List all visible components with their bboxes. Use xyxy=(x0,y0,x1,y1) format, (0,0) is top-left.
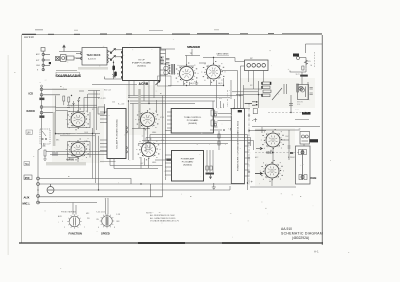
tube V1 xyxy=(66,109,90,131)
tube V7 xyxy=(261,129,285,151)
svg-text:ACRB: ACRB xyxy=(139,82,149,86)
power amp label xyxy=(181,158,195,167)
input jack J1 xyxy=(40,88,67,96)
svg-text:6: 6 xyxy=(98,227,99,229)
svg-text:R—C 47K: R—C 47K xyxy=(98,98,106,100)
capacitor C2 xyxy=(166,63,170,64)
svg-text:6BA6: 6BA6 xyxy=(152,131,156,134)
notes text block xyxy=(146,213,180,223)
connector pin labels xyxy=(36,53,41,71)
wire subcircuit to pilot box xyxy=(301,72,303,85)
wire bus y91.8 xyxy=(232,91,258,93)
wires around output tubes xyxy=(168,58,235,86)
dark label right cluster xyxy=(302,112,311,115)
svg-text:1-7/8: 1-7/8 xyxy=(116,214,120,216)
pilot lamp box xyxy=(298,85,309,100)
rectifier cluster stacked resistors xyxy=(236,81,271,108)
svg-text:(N-8401): (N-8401) xyxy=(137,66,146,68)
wire V6 top drop xyxy=(186,56,188,66)
wire under mic board xyxy=(100,161,116,163)
dark dash left of fuse box xyxy=(290,152,293,154)
tiny labels under IF board xyxy=(98,90,124,106)
svg-text:4: 4 xyxy=(62,221,63,223)
paper tone patches xyxy=(52,78,315,186)
svg-text:C15: C15 xyxy=(112,101,115,103)
svg-text:6BE6: 6BE6 xyxy=(152,162,156,164)
wires into S1 xyxy=(73,203,76,215)
input jack J2 xyxy=(40,106,56,114)
svg-text:VOLTAGE MEASURED AT 117V: VOLTAGE MEASURED AT 117V xyxy=(150,219,180,222)
svg-text:LIN: LIN xyxy=(27,131,31,134)
mic board right pin bumps xyxy=(126,127,127,154)
svg-text:2: 2 xyxy=(64,227,65,229)
tube V5 output xyxy=(201,61,225,83)
gray blob left mid xyxy=(52,152,58,156)
svg-text:75: 75 xyxy=(299,129,301,131)
scan smear vertical band 2 xyxy=(138,89,140,128)
svg-text:AUX: AUX xyxy=(24,196,30,200)
scan speck top-left xyxy=(14,72,16,73)
svg-text:SPEED: SPEED xyxy=(101,232,110,236)
ground G1 xyxy=(195,81,198,85)
svg-text:ICD: ICD xyxy=(29,92,34,96)
tone control label xyxy=(184,117,202,125)
vertical wire x216 xyxy=(216,80,218,108)
6AR5 label xyxy=(217,53,230,56)
svg-text:6AQ5: 6AQ5 xyxy=(218,82,222,85)
output transformer T2 xyxy=(172,64,174,75)
wire top of speaker area xyxy=(140,47,175,49)
svg-text:R3: R3 xyxy=(92,109,94,111)
svg-text:2.2M: 2.2M xyxy=(84,141,88,143)
IF amp board label xyxy=(132,60,152,68)
svg-text:6AV6: 6AV6 xyxy=(67,158,75,162)
wires IF board bottom drop xyxy=(129,81,154,104)
svg-text:KEB: KEB xyxy=(311,176,317,180)
wire y130.7 xyxy=(249,130,266,132)
frame bottom border xyxy=(19,242,323,244)
mic board input connector xyxy=(98,104,105,114)
jack circles lower xyxy=(37,195,40,204)
svg-text:SCHEMATIC DIAGRAM: SCHEMATIC DIAGRAM xyxy=(281,231,323,235)
svg-text:MIC⊥: MIC⊥ xyxy=(23,202,31,206)
ladder under tone board right xyxy=(218,131,220,150)
svg-text:(4802292A): (4802292A) xyxy=(292,236,309,240)
tube V6 output xyxy=(174,63,198,85)
svg-text:A-1: A-1 xyxy=(314,250,319,254)
svg-text:MIC AMP PC BOARD (N-8400): MIC AMP PC BOARD (N-8400) xyxy=(116,119,119,148)
svg-text:RADIO: RADIO xyxy=(27,109,35,113)
junction mark xyxy=(49,62,51,64)
capacitor C1 xyxy=(166,58,170,59)
ground G2 xyxy=(212,183,216,190)
svg-text:ALL RESISTANCE IN OHM: ALL RESISTANCE IN OHM xyxy=(150,214,175,217)
jack group label 2 xyxy=(39,115,44,118)
svg-text:.047: .047 xyxy=(140,163,143,165)
dashed line between tubes xyxy=(255,152,300,154)
verticals right mid xyxy=(210,101,224,130)
plug P2 xyxy=(110,55,116,61)
S2 inner wiper xyxy=(106,216,108,226)
dark cap label xyxy=(206,173,215,175)
svg-text:— —: — — xyxy=(295,109,299,111)
tone board pins xyxy=(167,112,218,128)
junction dots scattered xyxy=(37,57,291,191)
resistor R6 xyxy=(211,120,215,126)
svg-text:IF AMP PC BOARD: IF AMP PC BOARD xyxy=(132,62,152,65)
scan smear band 1 xyxy=(78,67,108,70)
svg-text:TONE CONTROL: TONE CONTROL xyxy=(184,117,202,119)
vertical with cap xyxy=(289,95,293,113)
wire mic board to speed switch xyxy=(106,159,163,215)
svg-text:FUNCTION: FUNCTION xyxy=(69,232,83,236)
wires around V7 V8 xyxy=(272,140,289,186)
bus vertical 2 xyxy=(55,96,57,136)
scan noise speckle xyxy=(29,39,314,238)
S1 surrounding labels xyxy=(58,211,90,230)
filter box FL1 xyxy=(56,57,60,61)
svg-text:NOTE:: NOTE: xyxy=(146,213,153,215)
long bus wires lower left xyxy=(38,179,245,203)
wires V2 to mic board xyxy=(46,152,107,155)
svg-text:A-4010S: A-4010S xyxy=(88,58,96,61)
staircase risers lower left xyxy=(163,180,231,197)
grid wires above V1 xyxy=(73,91,101,134)
rectifier end caps dark xyxy=(261,82,271,97)
junction dot xyxy=(113,62,114,63)
AC inlet box xyxy=(300,132,310,145)
left main bus vertical xyxy=(38,87,42,203)
verticals into power supply top xyxy=(231,66,244,109)
svg-text:R— 220: R— 220 xyxy=(118,103,124,105)
svg-text:ALL CAPACITANCE IN MFD: ALL CAPACITANCE IN MFD xyxy=(150,217,176,220)
power entry box xyxy=(296,146,311,184)
svg-text:7-1/2 3-3/4: 7-1/2 3-3/4 xyxy=(96,212,105,214)
components right of power amp xyxy=(206,150,213,172)
tube V4 xyxy=(136,139,160,161)
scattered scan specks xyxy=(60,86,349,269)
frame top border xyxy=(22,30,322,35)
LIN label xyxy=(26,130,33,134)
tube lineup legend xyxy=(56,70,77,72)
label 250 dark xyxy=(24,175,32,180)
svg-text:TK OF: TK OF xyxy=(138,60,145,62)
svg-text:TEAC DECK: TEAC DECK xyxy=(87,54,101,57)
wires speaker block drop xyxy=(249,71,264,90)
caps right of pilot box xyxy=(310,88,313,95)
rotary switch S2 xyxy=(100,214,114,228)
svg-text:PC BOARD: PC BOARD xyxy=(182,161,194,164)
top right subcircuit xyxy=(306,44,323,53)
caps cluster right xyxy=(284,82,308,100)
svg-text:POWER SUPPLY & POWER AMP PC BO: POWER SUPPLY & POWER AMP PC BOARD (N-840… xyxy=(237,121,240,171)
wire right column xyxy=(295,118,309,120)
wire speaker drop xyxy=(185,49,200,56)
svg-text:SPEAKER: SPEAKER xyxy=(187,45,201,49)
wire mid xyxy=(230,108,250,110)
jack circles right of IF board xyxy=(164,66,168,70)
wires tubes to speaker block xyxy=(222,58,245,71)
scan smear vertical band 1 xyxy=(53,112,56,146)
svg-text:B 250V: B 250V xyxy=(288,157,295,159)
filter box FL2 xyxy=(67,56,82,60)
connector CN1 xyxy=(41,48,50,71)
plug marks top of chain xyxy=(245,101,258,105)
small dark component V4 right xyxy=(167,159,172,161)
AC inlet dark label xyxy=(310,139,319,142)
power amp left pins xyxy=(163,76,172,180)
svg-text:250: 250 xyxy=(25,176,30,180)
scan edge streak left xyxy=(8,55,9,255)
resistor R5 xyxy=(211,110,215,116)
svg-text:6X4-6BA6-6AV6: 6X4-6BA6-6AV6 xyxy=(56,73,82,78)
power supply board box xyxy=(231,109,244,184)
wire below V8 xyxy=(250,186,296,188)
wires plugs to IF board xyxy=(108,50,122,59)
arrow into V8 xyxy=(255,172,262,174)
svg-text:8: 8 xyxy=(114,227,115,229)
cap pair right of chain xyxy=(253,109,257,123)
frame right border xyxy=(321,35,323,245)
dash-dot vertical xyxy=(227,90,229,108)
tiny text below pilot box xyxy=(295,102,303,111)
small resistors left of V1 xyxy=(63,96,70,105)
IF board right pins xyxy=(160,50,166,75)
rotary switch S1 xyxy=(67,214,81,228)
svg-text:C1 .01: C1 .01 xyxy=(68,106,73,108)
svg-text:R101 C105 R107: R101 C105 R107 xyxy=(57,134,71,136)
nested bus below tone board xyxy=(138,130,254,152)
S2 surrounding labels xyxy=(96,212,120,230)
svg-text:AA 910: AA 910 xyxy=(24,35,34,39)
dashed line right xyxy=(314,52,316,68)
svg-text:(N-8402): (N-8402) xyxy=(183,165,192,167)
capacitor C5 dark xyxy=(112,66,115,71)
vertical right of tubes xyxy=(288,130,291,160)
jack row TEL circles xyxy=(37,177,40,185)
wires right section horizontals xyxy=(252,127,320,134)
wire below tape deck xyxy=(92,61,137,85)
tape deck box xyxy=(81,48,109,66)
speaker terminal block xyxy=(245,60,269,71)
svg-text:6AQ5: 6AQ5 xyxy=(190,82,194,85)
meter jack M1 xyxy=(47,184,54,194)
svg-text:6AR5 6BM8: 6AR5 6BM8 xyxy=(217,53,230,56)
capacitor C6 dark xyxy=(114,72,117,77)
wires subcircuit xyxy=(290,58,308,73)
tone control board box xyxy=(171,109,213,134)
vertical wire right of IF board xyxy=(165,49,167,76)
mic amp board box xyxy=(107,109,126,159)
svg-text:POWER AMP: POWER AMP xyxy=(181,158,195,161)
arrow into V7 xyxy=(256,147,262,149)
dark label mid cluster xyxy=(238,110,242,112)
wires power entry xyxy=(303,144,305,146)
svg-text:R12 C14: R12 C14 xyxy=(104,90,111,92)
svg-text:GND: GND xyxy=(36,65,41,67)
chain line right of power supply xyxy=(248,103,250,185)
power supply left pin wires xyxy=(218,114,232,131)
frame left border xyxy=(21,35,23,243)
arrow mark xyxy=(112,74,115,77)
svg-text:AA-910: AA-910 xyxy=(281,227,292,231)
jack group label xyxy=(39,98,44,101)
arrow plug mark xyxy=(156,80,161,85)
switch lever diagonal xyxy=(272,88,282,100)
tube V3 xyxy=(135,109,159,131)
small switch cluster xyxy=(40,129,50,146)
long bus wires upper xyxy=(67,96,243,108)
power supply right pins xyxy=(245,141,249,190)
tube V8 xyxy=(260,160,284,182)
wires around V1 V2 xyxy=(56,112,101,191)
scan smear band 2 xyxy=(46,162,86,165)
vertical wires right of mic board xyxy=(129,101,134,160)
pilot circle xyxy=(297,57,300,60)
svg-text:VOL: VOL xyxy=(297,104,300,106)
small box below IF board xyxy=(158,76,172,86)
tiny value labels scattered xyxy=(68,82,289,165)
component cluster left mid xyxy=(43,150,46,160)
power amp board box xyxy=(172,151,204,182)
svg-text:(N-8403): (N-8403) xyxy=(188,123,197,125)
antenna xyxy=(59,45,81,52)
svg-text:PC BOARD: PC BOARD xyxy=(187,119,199,122)
arrow down xyxy=(209,175,211,179)
resistor R2 xyxy=(161,59,163,63)
relay dark label xyxy=(293,54,299,57)
wires tape deck left xyxy=(76,53,81,58)
wires around V3 V4 xyxy=(132,100,171,169)
svg-text:TEL: TEL xyxy=(25,163,30,166)
coil box L1 xyxy=(61,55,67,62)
wire bus mid horizontals left xyxy=(56,108,70,111)
svg-text:R22: R22 xyxy=(219,98,222,100)
title block text xyxy=(281,227,323,240)
plug P1 xyxy=(110,48,116,54)
svg-text:PHONO TAPE AM: PHONO TAPE AM xyxy=(61,211,76,214)
svg-text:7: 7 xyxy=(84,227,85,229)
TEL jack label xyxy=(24,162,30,166)
mic board left pins xyxy=(100,112,107,151)
dashed run mid right xyxy=(268,112,308,114)
IF amp board box xyxy=(122,48,161,81)
small caps right of tone board xyxy=(214,114,216,126)
tube V2 xyxy=(66,139,90,161)
